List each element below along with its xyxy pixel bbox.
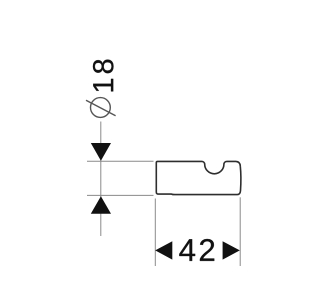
arrow left (42 dimension): [155, 241, 172, 259]
vertical dimension line for Ø18: [100, 122, 102, 237]
digit 1 of 18 (rotated): [93, 79, 113, 92]
diameter symbol circle: [91, 98, 111, 118]
hook body outline (side view): [156, 161, 241, 194]
arrow right (42 dimension): [223, 241, 240, 259]
extension line left (hook left edge, for 42): [154, 199, 156, 267]
dimension text 42: digit 4: [179, 239, 195, 261]
arrow down (upper arrow of Ø18 dimension): [91, 143, 111, 161]
extension line right (hook right edge, for 42): [239, 197, 241, 266]
digit 2 of 42: [200, 239, 214, 261]
digit 8 of 18 (rotated): [93, 60, 114, 74]
dimension text Ø18 (rotated, reads bottom-to-top): [86, 60, 116, 118]
extension line bottom (hook bottom edge): [87, 194, 154, 196]
extension line top (hook top edge): [87, 160, 154, 162]
arrow up (lower arrow of Ø18 dimension): [91, 196, 111, 213]
diameter symbol slash: [86, 100, 116, 116]
